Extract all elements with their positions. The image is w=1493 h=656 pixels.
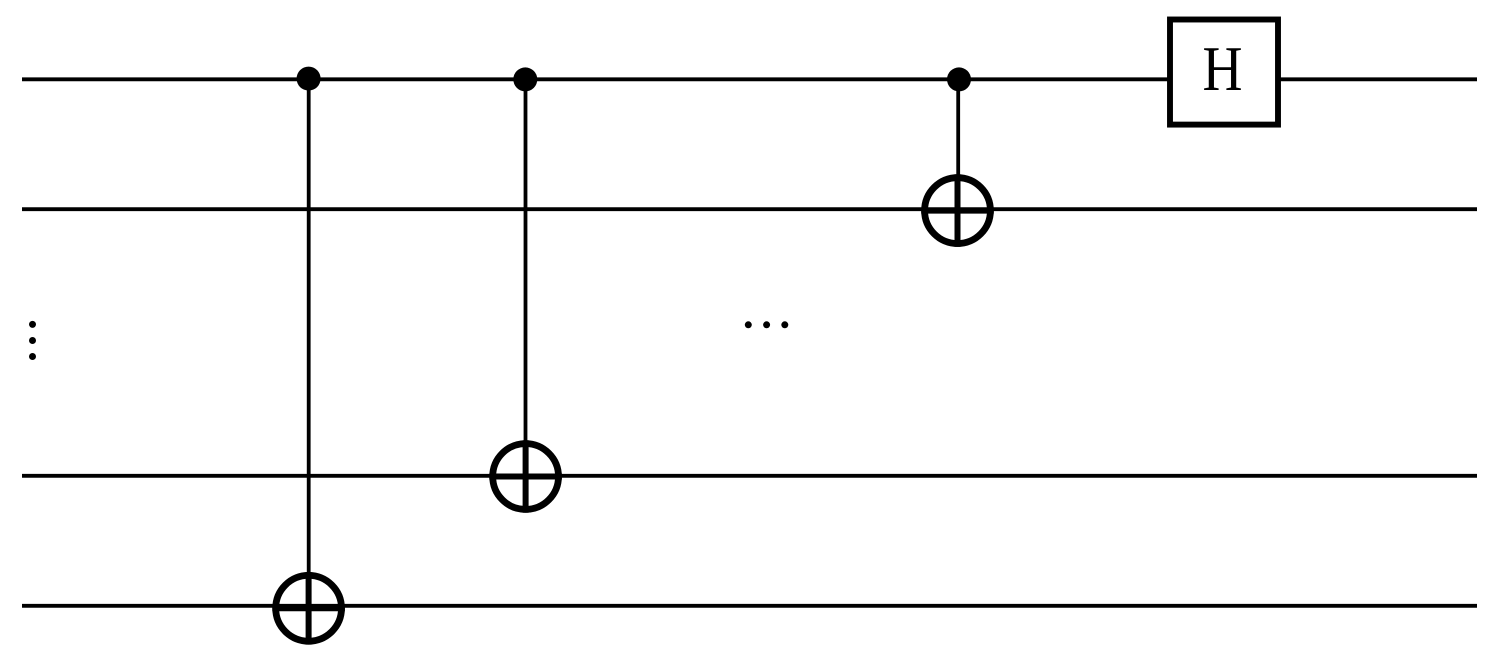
wire qubit line 2 (22, 207, 1477, 211)
node control dot 2 (513, 67, 537, 91)
CNOT target X2 on wire 4 (489, 440, 562, 513)
wire qubit line 1 (22, 77, 1477, 81)
wire control line column 3 (956, 79, 960, 210)
node horizontal ellipsis (omitted gates) (745, 321, 789, 328)
CNOT target X3 on wire 5 (272, 572, 345, 645)
wire qubit line 5 (22, 604, 1477, 608)
node vertical ellipsis (omitted qubits) (29, 321, 36, 360)
node control dot 1 (297, 67, 321, 91)
CNOT target X1 on wire 2 (921, 174, 994, 247)
gate H box U1 (1170, 20, 1278, 125)
wire qubit line 4 (22, 474, 1477, 478)
wire control line column 1 (307, 79, 311, 608)
node control dot 3 (947, 67, 971, 91)
svg-text:H: H (1203, 34, 1243, 104)
wire control line column 2 (524, 79, 528, 476)
